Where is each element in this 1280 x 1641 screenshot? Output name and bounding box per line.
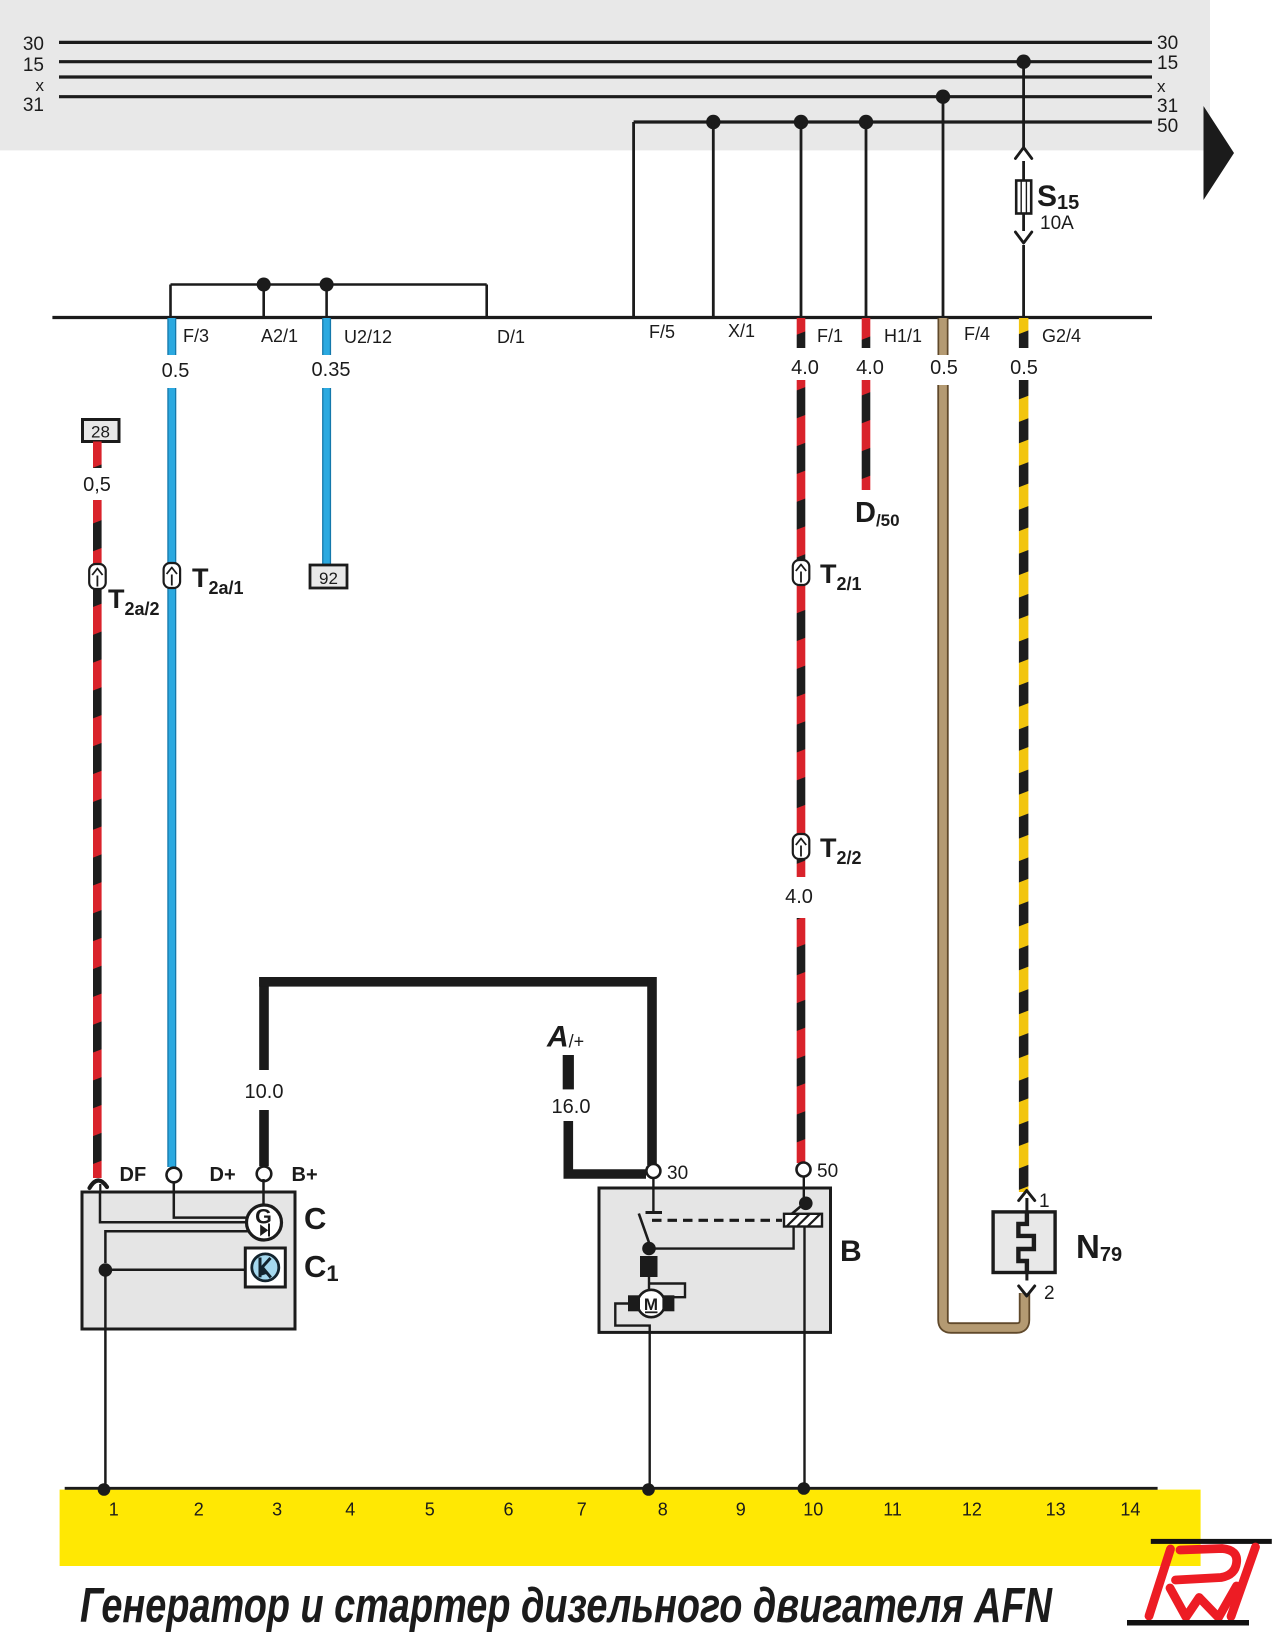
wire blue F/3 stub: [167, 318, 176, 355]
wire motor left to bus bar: [615, 1304, 649, 1490]
svg-text:F/3: F/3: [183, 326, 209, 346]
svg-text:7: 7: [577, 1500, 587, 1520]
svg-text:X/1: X/1: [728, 321, 755, 341]
svg-text:50: 50: [1157, 116, 1178, 137]
node dot ground 10: [798, 1482, 811, 1495]
logo red PW mark: [1149, 1547, 1256, 1618]
svg-text:T2a/2: T2a/2: [108, 584, 160, 619]
wire motor link right: [650, 1284, 685, 1298]
wire DF inside C: [100, 1192, 247, 1222]
svg-text:T2/2: T2/2: [820, 833, 862, 868]
svg-text:10.0: 10.0: [245, 1081, 284, 1103]
N79 pin 2: [1019, 1273, 1055, 1305]
node U2/12 dot: [320, 278, 334, 292]
svg-text:T2/1: T2/1: [820, 559, 862, 594]
svg-text:A/+: A/+: [546, 1021, 584, 1054]
bus line 50: [634, 116, 1179, 137]
wire blue U2/12 run to terminal 92: [322, 388, 331, 568]
bus line 31: [23, 95, 1178, 117]
wire red/black stub below 28: [93, 442, 102, 469]
switch blade: [639, 1214, 650, 1247]
svg-text:1: 1: [109, 1500, 119, 1520]
svg-text:2: 2: [1044, 1283, 1055, 1304]
wire: 31 bus to rail F/4: [942, 97, 945, 317]
svg-text:D+: D+: [210, 1164, 236, 1186]
svg-text:31: 31: [23, 95, 44, 116]
wire blue F/3 main run to D+: [167, 388, 176, 1167]
bus line 15: [23, 53, 1178, 76]
wire A battery stub (16.0): [563, 1055, 574, 1089]
svg-text:C: C: [304, 1201, 326, 1236]
wire red/black H1/1 stub: [862, 318, 871, 348]
svg-text:13: 13: [1046, 1500, 1066, 1520]
node dot switch lower: [642, 1242, 656, 1256]
wire C internal ground branch: [105, 1231, 247, 1263]
wire dot to C1: [105, 1269, 245, 1272]
wire red/black F/1 upper run: [797, 380, 806, 877]
node: junction dot on 50 F/1: [794, 115, 808, 129]
terminal circle 50: [797, 1163, 811, 1177]
svg-text:Генератор и стартер дизельного: Генератор и стартер дизельного двигателя…: [80, 1579, 1053, 1633]
svg-text:0.5: 0.5: [930, 357, 958, 379]
svg-text:10: 10: [803, 1500, 823, 1520]
svg-text:30: 30: [1157, 33, 1178, 54]
svg-text:U2/12: U2/12: [344, 327, 392, 347]
wire: 50 bus left corner down to rail F/5: [632, 122, 635, 317]
node dot ground 8: [642, 1483, 655, 1496]
svg-text:4.0: 4.0: [785, 886, 813, 908]
svg-text:9: 9: [736, 1500, 746, 1520]
svg-text:G2/4: G2/4: [1042, 326, 1081, 346]
wire brown F/4 run to N79 pin2: [943, 385, 1025, 1328]
glow plug relay N79 box: [993, 1212, 1055, 1273]
node: junction dot on 15 (fuse feed): [1016, 55, 1030, 69]
svg-text:0,5: 0,5: [83, 474, 111, 496]
wire: 15 bus to fuse S15: [1015, 62, 1031, 181]
svg-text:28: 28: [91, 423, 110, 442]
wire yellow/black G2/4 stub: [1019, 318, 1029, 348]
wire 50 into B: [803, 1177, 805, 1200]
logo bottom line: [1127, 1620, 1249, 1626]
bracket wire over F/3 A2/1 U2/12 D/1: [171, 285, 487, 317]
svg-text:6: 6: [503, 1500, 513, 1520]
terminal DF arrow hook: [90, 1164, 147, 1193]
bus line 30: [23, 33, 1178, 55]
svg-text:F/5: F/5: [649, 322, 675, 342]
grey bus band: [0, 0, 1210, 150]
wire brown F/4 stub: [938, 318, 949, 355]
direction arrow: [1204, 106, 1235, 200]
wire D+ inside C: [174, 1182, 247, 1218]
connector T2a/1: [164, 563, 244, 598]
main terminal rail: [52, 316, 1152, 319]
wire red/black F/1 stub: [797, 318, 806, 348]
wire winding to motor: [648, 1277, 650, 1291]
wire B+ inside C: [262, 1179, 265, 1206]
switch fixed contact: [646, 1211, 663, 1214]
node dot on solenoid: [799, 1197, 813, 1211]
wire: 50 bus to rail H1/1: [865, 122, 868, 317]
node: junction dot on 50 X/1: [706, 115, 720, 129]
svg-text:92: 92: [319, 569, 338, 588]
terminal circle 30: [646, 1164, 660, 1178]
svg-text:H1/1: H1/1: [884, 326, 922, 346]
svg-text:4.0: 4.0: [791, 357, 819, 379]
svg-text:S15: S15: [1037, 180, 1079, 214]
solenoid link tick: [791, 1207, 801, 1215]
wire blade dot to solenoid: [649, 1227, 794, 1249]
svg-text:15: 15: [23, 55, 44, 76]
svg-text:D/1: D/1: [497, 327, 525, 347]
ground bus bar (yellow band): [60, 1490, 1201, 1566]
svg-text:10A: 10A: [1040, 213, 1074, 234]
connector T2/2: [793, 833, 862, 868]
svg-text:x: x: [1157, 77, 1166, 96]
svg-text:M: M: [644, 1295, 658, 1314]
solenoid winding block: [640, 1256, 658, 1277]
svg-text:A2/1: A2/1: [261, 326, 298, 346]
svg-text:15: 15: [1157, 53, 1178, 74]
svg-text:0.35: 0.35: [312, 359, 351, 381]
svg-text:1: 1: [1039, 1191, 1050, 1212]
generator box C: [82, 1192, 295, 1329]
wire A to starter 30: [568, 1121, 646, 1174]
wire 30 into B: [652, 1178, 654, 1211]
wire: 50 bus to rail F/1: [800, 122, 803, 317]
svg-text:0.5: 0.5: [1010, 357, 1038, 379]
wire red/black H1/1 run D/50: [862, 380, 871, 490]
svg-text:2: 2: [194, 1500, 204, 1520]
svg-text:N79: N79: [1076, 1228, 1122, 1266]
starter motor M: [628, 1290, 674, 1317]
svg-text:4: 4: [345, 1500, 355, 1520]
dashed actuator line: [652, 1219, 782, 1222]
wire C ground to bus bar: [104, 1276, 107, 1489]
node: junction dot on 31 (F/4 feed): [936, 90, 950, 104]
wire yellow/black G2/4 run to N79 pin1: [1019, 380, 1029, 1192]
svg-text:30: 30: [667, 1163, 688, 1184]
starter box B: [599, 1188, 831, 1332]
svg-text:F/4: F/4: [964, 324, 990, 344]
svg-text:0.5: 0.5: [162, 360, 190, 382]
svg-text:5: 5: [425, 1500, 435, 1520]
fuse S15: [1016, 180, 1079, 234]
ground bus line: [65, 1487, 1158, 1490]
svg-text:4.0: 4.0: [856, 357, 884, 379]
connector T2a/2: [89, 564, 159, 619]
node dot ground 1: [98, 1483, 111, 1496]
svg-text:C1: C1: [304, 1249, 339, 1286]
wire: 50 bus to rail X/1: [712, 122, 715, 317]
svg-text:14: 14: [1120, 1500, 1140, 1520]
svg-text:T2a/1: T2a/1: [192, 563, 244, 598]
svg-text:B: B: [840, 1235, 862, 1268]
node: junction dot on 50 H1/1: [859, 115, 873, 129]
wire red/black 28 to DF: [93, 500, 102, 1178]
bus line x: [36, 76, 1167, 96]
svg-text:12: 12: [962, 1500, 982, 1520]
terminal B+ circle: [257, 1164, 318, 1186]
thick wire B+ to starter 30 (10.0): [259, 977, 657, 1166]
svg-text:x: x: [36, 76, 45, 95]
svg-text:F/1: F/1: [817, 326, 843, 346]
N79 pin 1: [1019, 1191, 1050, 1213]
node A2/1 dot: [257, 278, 271, 292]
generator symbol G: [247, 1205, 282, 1241]
wire red/black F/1 lower run to starter 50: [797, 918, 806, 1163]
terminal box 28: [83, 420, 120, 442]
svg-text:16.0: 16.0: [552, 1096, 591, 1118]
svg-text:50: 50: [817, 1161, 838, 1182]
ground point numbers: [109, 1500, 1141, 1520]
wire blue U2/12 stub: [322, 318, 331, 355]
solenoid core hatched box: [784, 1214, 822, 1227]
node dot in C: [99, 1263, 113, 1277]
terminal D+ circle: [167, 1164, 236, 1186]
terminal box 92: [310, 565, 347, 588]
wire solenoid to bus bar: [803, 1227, 805, 1490]
svg-text:30: 30: [23, 34, 44, 55]
svg-text:31: 31: [1157, 96, 1178, 117]
connector T2/1: [793, 559, 862, 594]
svg-text:D/50: D/50: [855, 497, 900, 530]
svg-text:3: 3: [272, 1500, 282, 1520]
svg-text:11: 11: [883, 1500, 902, 1520]
wire: fuse to rail G2/4: [1015, 214, 1031, 318]
logo top line: [1151, 1539, 1272, 1544]
svg-text:8: 8: [658, 1500, 668, 1520]
svg-text:B+: B+: [292, 1164, 318, 1186]
regulator lamp C1: [245, 1248, 285, 1287]
svg-text:DF: DF: [120, 1164, 147, 1186]
